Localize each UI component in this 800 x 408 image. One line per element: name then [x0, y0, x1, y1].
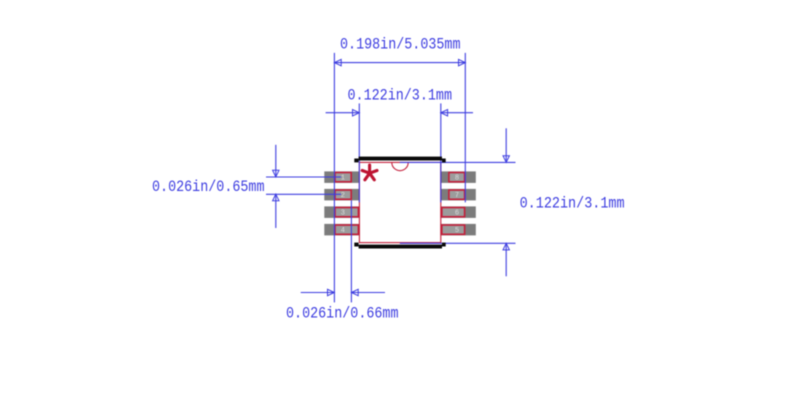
dimension line 0.198in/5.035mm [334, 62, 465, 64]
pad 1 leader line [266, 176, 341, 178]
dimension extension line V2 (right of 0.198in span) [464, 53, 466, 203]
pad 2 leader line [266, 193, 341, 195]
arrow right of 0.198in dimension [459, 59, 466, 65]
arrow down (right 3.1mm dimension) [503, 156, 509, 163]
dimension line left segment 0.122in top [326, 112, 360, 114]
top silkscreen bar [354, 157, 445, 163]
pad 3 [324, 206, 359, 218]
dimension line right segment 0.66mm bottom [351, 292, 385, 294]
pad 5 [440, 224, 475, 236]
svg-text:3: 3 [341, 210, 345, 218]
bottom silkscreen bar [354, 243, 445, 249]
right dimension lower arrow line [505, 243, 507, 276]
svg-text:0.198in/5.035mm: 0.198in/5.035mm [340, 36, 461, 54]
body top extension line (right 3.1mm dimension) [400, 161, 516, 163]
dimension extension line V3 (left of 3.1mm body width) [358, 103, 360, 202]
dimension line right segment 0.122in top [441, 112, 473, 114]
svg-text:6: 6 [455, 210, 459, 218]
svg-text:0.026in/0.66mm: 0.026in/0.66mm [286, 304, 399, 322]
svg-text:7: 7 [455, 192, 459, 200]
pitch dimension upper arrow line [275, 145, 277, 177]
dimension extension line V5 (right of 0.66mm pad width) [350, 200, 352, 302]
dimension line left segment 0.66mm bottom [301, 292, 335, 294]
dimension extension line V1 (left of 0.198in span) [333, 53, 335, 303]
pad 8 [440, 171, 475, 183]
svg-text:0.122in/3.1mm: 0.122in/3.1mm [520, 195, 625, 213]
pin 1 notch arc [392, 163, 408, 171]
arrow up (right 3.1mm dimension) [503, 243, 509, 250]
arrow down (pitch dimension) [273, 170, 279, 177]
pad 1 [324, 171, 359, 183]
pitch dimension lower arrow line [275, 194, 277, 228]
pad 4 [324, 224, 359, 236]
arrow at left body edge (0.122in top) [353, 110, 360, 116]
svg-text:0.026in/0.65mm: 0.026in/0.65mm [152, 178, 265, 196]
body bottom extension line (right 3.1mm dimension) [400, 242, 516, 244]
pin 1 marker asterisk [362, 165, 377, 180]
dimension extension line V4 (right of 3.1mm body width) [440, 103, 442, 202]
arrow at right (0.66mm dimension) [351, 289, 358, 295]
svg-text:4: 4 [341, 227, 345, 235]
arrow left of 0.198in dimension [334, 59, 341, 65]
svg-text:0.122in/3.1mm: 0.122in/3.1mm [348, 87, 453, 105]
right dimension upper arrow line [505, 128, 507, 162]
svg-text:5: 5 [455, 227, 459, 235]
svg-text:2: 2 [341, 192, 345, 200]
svg-text:8: 8 [455, 175, 459, 183]
pad 7 [440, 189, 475, 201]
arrow at right body edge (0.122in top) [441, 110, 448, 116]
pad 2 [324, 189, 359, 201]
pad 6 [440, 206, 475, 218]
arrow at left (0.66mm dimension) [328, 289, 335, 295]
component body outline [359, 162, 440, 242]
arrow up (pitch dimension) [273, 194, 279, 201]
svg-text:1: 1 [341, 175, 345, 183]
